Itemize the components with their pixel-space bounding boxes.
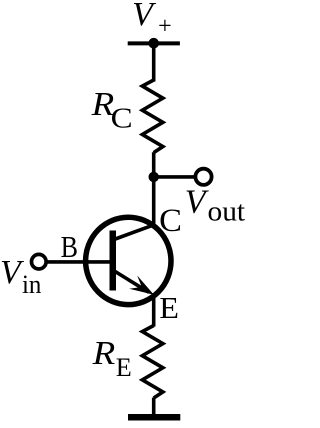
svg-text:E: E [159,291,179,325]
transistor Q1 collector line [114,225,154,240]
transistor Q1 base bar [110,231,117,291]
svg-text:E: E [116,353,132,382]
label V+ [132,0,172,39]
transistor Q1 circle [86,217,171,304]
wire V+ to RC [152,43,156,82]
svg-text:in: in [22,270,41,299]
transistor Q1 emitter line [114,271,149,293]
terminal Vin (open circle) [32,254,47,269]
resistor RC [142,80,163,153]
wire node to Vout terminal [154,175,198,179]
wire Vin to base [45,260,110,264]
wire RC to collector [152,152,156,227]
svg-text:V: V [185,183,210,220]
svg-text:R: R [92,335,116,372]
svg-text:out: out [208,196,246,227]
label RC [91,86,133,134]
label Vin [0,254,41,299]
junction dot at V+ [148,38,159,49]
wire emitter to RE [152,295,156,327]
terminal Vout (open circle) [195,169,211,185]
wire RE to ground [152,398,156,415]
svg-text:+: + [158,13,172,39]
node dot (Vout junction) [149,172,159,182]
svg-text:C: C [111,104,133,135]
label Vout [185,183,245,227]
power rail V+ bar [128,41,180,45]
transistor Q1 emitter arrow [129,276,154,295]
ground bar [128,414,180,421]
label RE [92,335,132,382]
resistor RE [142,326,163,399]
svg-text:B: B [61,229,78,264]
svg-text:V: V [132,0,157,33]
